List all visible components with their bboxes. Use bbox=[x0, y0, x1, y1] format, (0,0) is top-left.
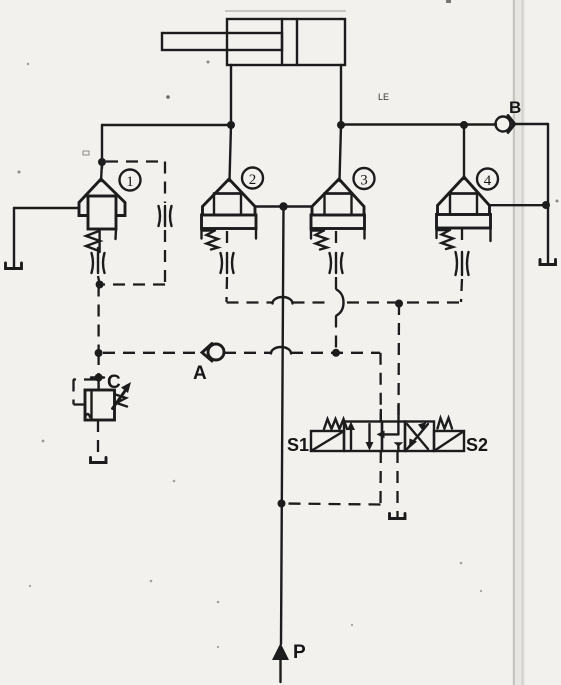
svg-text:B: B bbox=[509, 98, 521, 117]
svg-text:4: 4 bbox=[484, 173, 492, 189]
svg-text:A: A bbox=[193, 363, 207, 384]
svg-text:P: P bbox=[293, 642, 306, 663]
svg-text:1: 1 bbox=[126, 174, 134, 190]
svg-text:S2: S2 bbox=[466, 435, 488, 455]
svg-text:LE: LE bbox=[378, 92, 389, 102]
svg-text:S1: S1 bbox=[287, 435, 309, 455]
svg-text:3: 3 bbox=[360, 173, 368, 189]
svg-text:2: 2 bbox=[249, 172, 257, 188]
